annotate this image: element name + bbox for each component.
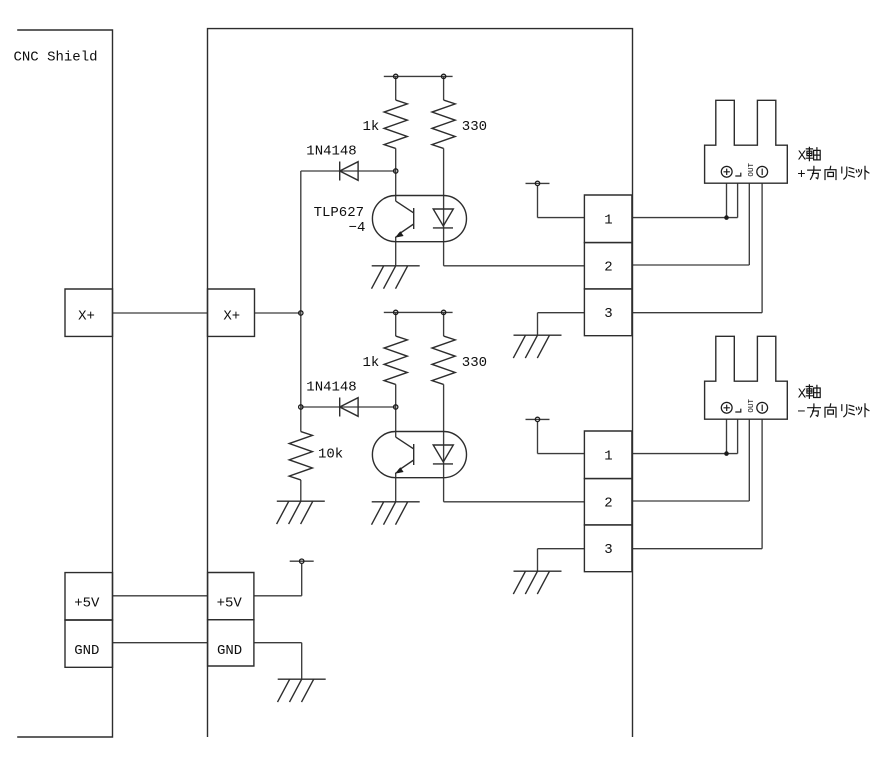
svg-text:GND: GND — [74, 643, 99, 659]
svg-text:330: 330 — [462, 355, 487, 371]
svg-text:−: − — [797, 404, 805, 420]
svg-text:1: 1 — [604, 213, 612, 229]
svg-text:+5V: +5V — [217, 596, 243, 612]
svg-text:OUT: OUT — [748, 162, 756, 176]
svg-text:330: 330 — [462, 119, 487, 135]
svg-text:2: 2 — [604, 260, 612, 276]
svg-text:+5V: +5V — [74, 596, 100, 612]
svg-text:X+: X+ — [223, 309, 240, 325]
svg-text:TLP627: TLP627 — [314, 205, 364, 221]
svg-text:3: 3 — [604, 306, 612, 322]
svg-text:10k: 10k — [318, 447, 343, 463]
svg-text:−4: −4 — [349, 220, 366, 236]
svg-text:2: 2 — [604, 496, 612, 512]
svg-text:3: 3 — [604, 542, 612, 558]
svg-text:1N4148: 1N4148 — [306, 144, 356, 160]
svg-text:+: + — [797, 167, 805, 183]
svg-text:X: X — [798, 149, 807, 165]
svg-text:GND: GND — [217, 643, 242, 659]
svg-text:X: X — [798, 386, 807, 402]
svg-text:1k: 1k — [363, 355, 380, 371]
svg-text:OUT: OUT — [748, 398, 756, 412]
svg-text:1k: 1k — [363, 119, 380, 135]
svg-text:CNC Shield: CNC Shield — [14, 50, 98, 66]
svg-text:X+: X+ — [78, 309, 95, 325]
svg-text:1: 1 — [604, 449, 612, 465]
svg-text:1N4148: 1N4148 — [306, 380, 356, 396]
